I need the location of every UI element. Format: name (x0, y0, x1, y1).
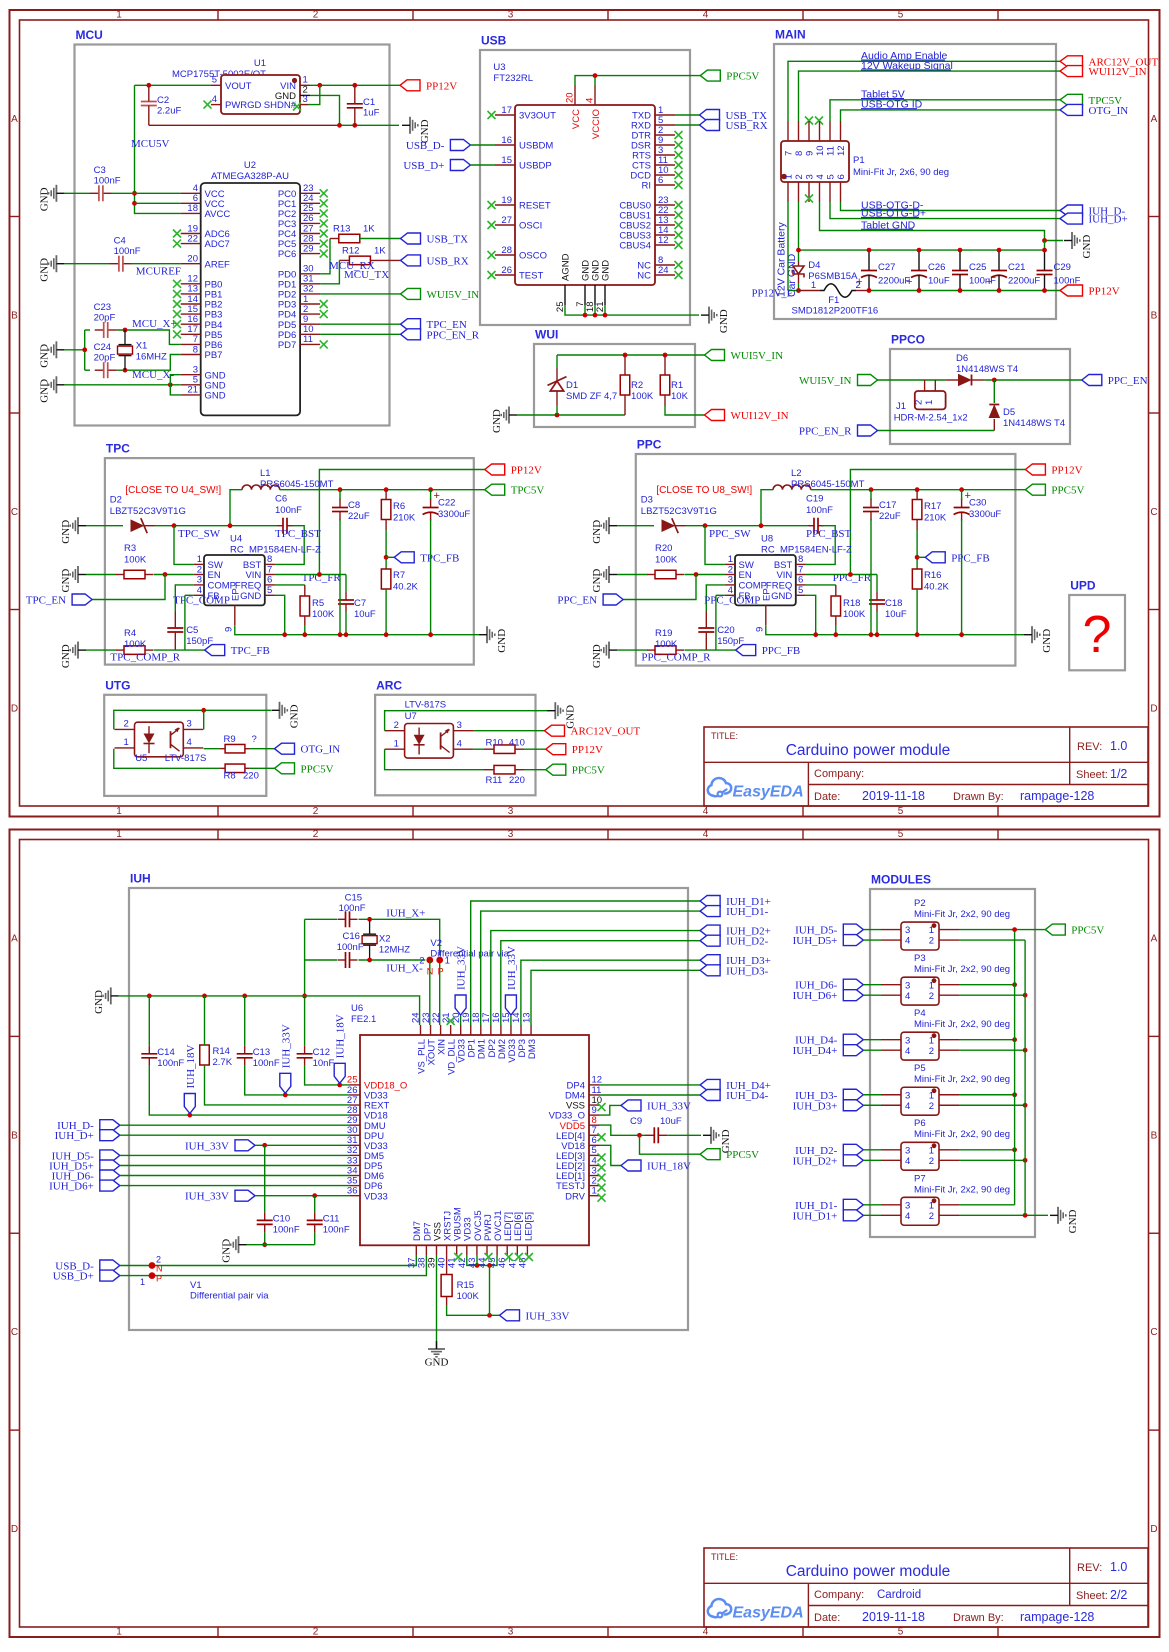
svg-text:R9: R9 (224, 734, 236, 745)
U3 pin 7 number (575, 302, 586, 307)
section title ARC (376, 678, 402, 692)
svg-text:2019-11-18: 2019-11-18 (862, 789, 925, 803)
U6 pin 15 VD33 stub (510, 1025, 512, 1035)
connector P2 body (901, 922, 939, 950)
svg-text:[CLOSE TO U4_SW!]: [CLOSE TO U4_SW!] (125, 485, 221, 496)
C22 polarity + (434, 490, 440, 502)
U3 pin 13 number (658, 215, 669, 226)
U2 pin 22 ADC7 stub (181, 243, 201, 245)
C3 reference (94, 165, 106, 176)
P1 pin 4 stub (819, 182, 821, 202)
svg-text:2: 2 (914, 400, 925, 405)
R8 right stub (245, 767, 250, 769)
P1 pin 3 stub (808, 182, 810, 202)
svg-text:IUH_18V: IUH_18V (185, 1044, 197, 1088)
C30 polarity + (965, 490, 971, 502)
wire USB_D- to DM7 (120, 1255, 417, 1265)
svg-text:PP12V_F: PP12V_F (752, 289, 793, 300)
U6 pin 15 number (501, 1012, 512, 1023)
net flag WUI12V_IN at WUI (705, 410, 789, 423)
svg-text:100K: 100K (312, 609, 335, 620)
U8 pin 7 VIN stub (796, 574, 806, 576)
junction (915, 632, 920, 637)
svg-text:1: 1 (116, 10, 122, 21)
svg-text:150pF: 150pF (186, 636, 213, 647)
junction (867, 288, 872, 293)
svg-text:100nF: 100nF (275, 505, 302, 516)
junction (997, 248, 1002, 253)
svg-text:C9: C9 (630, 1116, 642, 1127)
svg-text:C8: C8 (348, 500, 360, 511)
net flag IUH_D6+ at P3 (793, 990, 864, 1003)
wire IUH_X+ left (305, 918, 337, 920)
U6 pin 42 VD33 stub (466, 1245, 468, 1255)
resistor R1 (660, 375, 670, 395)
inductor L1 (242, 485, 280, 490)
svg-text:PPC5V: PPC5V (301, 763, 334, 775)
net flag PPC_EN (557, 594, 623, 607)
net flag TPC5V (485, 484, 545, 497)
U3 pin 10 number (658, 165, 669, 176)
svg-text:WUI5V_IN: WUI5V_IN (427, 289, 480, 301)
wire Cvin to rail (345, 612, 347, 635)
svg-text:PPC_EN: PPC_EN (1108, 375, 1148, 387)
section title TPC (106, 442, 130, 456)
U6 pin DP738 name (422, 1223, 433, 1241)
U2 pin 10 PD6 stub (300, 333, 320, 335)
wire Audio Amp Enable (788, 61, 1060, 121)
P1 reference (853, 155, 865, 166)
U6 pin DM634 name (364, 1171, 384, 1182)
resistor R2 (620, 375, 630, 395)
U8 pin 3 COMP stub (725, 584, 735, 586)
U6 pin 11 number (592, 1085, 602, 1096)
ground at MODULES (1050, 1207, 1079, 1234)
U2 pin 25 PC2 stub (300, 212, 320, 214)
U1 pin VOUT name (225, 81, 252, 92)
U2 pin 16 PB4 stub (181, 323, 201, 325)
P1 pin 5 stub (829, 182, 831, 202)
net flag OTG_IN at MAIN (1060, 104, 1128, 117)
P6 pin 2 stub (939, 1159, 959, 1161)
U3 pin 6 number (658, 175, 663, 186)
svg-text:NC: NC (637, 271, 651, 282)
U6 pin VSS10 name (566, 1101, 585, 1112)
svg-text:AREF: AREF (205, 259, 231, 270)
U4 pin COMP name (208, 581, 237, 592)
U2 pin 17 number (187, 324, 198, 335)
U2 pin 11 number (303, 334, 313, 345)
U8 pin 8 number (798, 554, 803, 565)
U6 pin 20 number (451, 1012, 462, 1023)
U6 pin VD186 name (561, 1141, 585, 1152)
P7 pin 1 stub (939, 1204, 959, 1206)
svg-text:PPCO: PPCO (891, 333, 925, 347)
wire flag to pin15 (510, 1015, 512, 1025)
C20 value (717, 636, 744, 647)
svg-text:IUH_D4-: IUH_D4- (726, 1090, 768, 1102)
resistor R18 (831, 596, 841, 616)
svg-text:USB_RX: USB_RX (427, 255, 469, 267)
section box WUI (534, 344, 695, 427)
svg-text:A: A (11, 114, 18, 125)
U3 pin 27 number (501, 215, 512, 226)
R6 reference (393, 501, 405, 512)
junction (132, 191, 137, 196)
P6 pin 4 stub (881, 1159, 901, 1161)
wire 5V rail (280, 489, 485, 491)
C5 reference (186, 625, 198, 636)
wire GND pin to rail (275, 595, 285, 634)
U6 pin 48 number (517, 1258, 528, 1269)
diode D1 SMD ZF 4.7 (548, 377, 567, 391)
net flag IUH_18V at C14 (184, 1044, 197, 1113)
net flag TPC_FB mid (394, 552, 459, 565)
V1 pin 1 number (140, 1277, 145, 1287)
svg-text:2: 2 (394, 720, 399, 731)
U2 pin 29 no-connect X (320, 250, 328, 258)
svg-text:1: 1 (394, 739, 399, 750)
svg-text:C10: C10 (273, 1214, 290, 1225)
U3 pin 14 no-connect X (675, 231, 683, 239)
svg-text:C: C (11, 507, 18, 518)
svg-text:Carduino power module: Carduino power module (786, 1563, 951, 1580)
svg-text:Mini-Fit Jr, 2x6, 90 deg: Mini-Fit Jr, 2x6, 90 deg (853, 167, 949, 178)
svg-text:A: A (1151, 114, 1158, 125)
svg-text:Mini-Fit Jr, 2x2, 90 deg: Mini-Fit Jr, 2x2, 90 deg (914, 1074, 1010, 1085)
U6 pin 1 number (592, 1185, 597, 1196)
P5 pin 3 number (905, 1090, 910, 1101)
U3 pin 6 RI stub (655, 184, 675, 186)
U4 pin FB name (208, 591, 220, 602)
svg-text:R15: R15 (457, 1280, 474, 1291)
wire BST (275, 526, 304, 565)
svg-text:PPC_EN: PPC_EN (557, 595, 597, 607)
U3 pin 14 CBUS3 stub (655, 234, 675, 236)
U6 pin 31 VD33 stub (350, 1144, 360, 1146)
U2 pin 11 no-connect X (320, 340, 328, 348)
net label MCUREF (136, 266, 181, 278)
svg-text:7: 7 (798, 564, 803, 575)
P1 pin 1 number (783, 174, 794, 179)
U6 pin XRSTJ40 name (443, 1211, 454, 1241)
U6 pin 10 number (592, 1095, 603, 1106)
junction (384, 632, 389, 637)
U2 pin 27 number (303, 223, 314, 234)
junction (875, 632, 880, 637)
C18 reference (885, 598, 902, 609)
F1 pin 2 stub (856, 290, 869, 292)
U2 pin 23 number (303, 183, 314, 194)
U6 pin 4 LED[2] stub (589, 1164, 600, 1166)
C12 reference (313, 1047, 330, 1058)
net flag IUH_D3+ at P5 (793, 1100, 864, 1113)
C7 value (354, 609, 376, 620)
svg-text:Drawn By:: Drawn By: (953, 1612, 1004, 1624)
wire flag to pin20 (460, 1015, 462, 1025)
U6 pin LED[3]5 name (556, 1151, 585, 1162)
P5 reference (914, 1063, 926, 1074)
ground at C10 (221, 1236, 247, 1263)
wire GND to U2 pin5 (64, 384, 180, 386)
R14 reference (213, 1046, 230, 1057)
svg-text:L2: L2 (791, 468, 802, 479)
resistor R7 (381, 569, 391, 589)
wire C10 bottom (264, 1232, 266, 1244)
junction (867, 248, 872, 253)
svg-text:410: 410 (509, 738, 525, 749)
junction (917, 288, 922, 293)
U6 pin OVCJ145 name (493, 1210, 504, 1241)
svg-text:100K: 100K (843, 609, 866, 620)
svg-text:100nF: 100nF (337, 942, 364, 953)
wire EN to flag (623, 575, 696, 600)
svg-text:10uF: 10uF (660, 1116, 682, 1127)
U6 pin 23 XOUT stub (430, 1025, 432, 1035)
svg-text:PPC_EN_R: PPC_EN_R (799, 426, 852, 438)
U4 pin 7 VIN stub (265, 574, 275, 576)
svg-text:D: D (11, 1524, 18, 1535)
U6 pin 1 no-connect X (598, 1194, 606, 1202)
P3 pin 1 stub (939, 984, 959, 986)
U3 pin 27 OSCI stub (495, 224, 515, 226)
capacitor C25 symbol (952, 271, 968, 275)
capacitor C29 symbol (1037, 271, 1053, 275)
svg-text:1uF: 1uF (363, 108, 380, 119)
svg-text:2/2: 2/2 (1110, 1588, 1127, 1602)
U3 pin DCD name (630, 171, 651, 182)
U2 pin ADC6 name (205, 229, 230, 240)
12V Wakeup Signal underline (861, 69, 951, 71)
U4 pin 1 number (197, 554, 202, 565)
svg-text:3300uF: 3300uF (438, 509, 470, 520)
U6 pin 14 DP3 stub (520, 1025, 522, 1035)
svg-text:MCU: MCU (76, 28, 103, 42)
net label PPC_COMP_R (641, 651, 711, 663)
F1 pin 1 number (811, 280, 816, 291)
wire U1 ground rail red part (149, 124, 340, 126)
U2 pin PC1 name (278, 199, 296, 210)
svg-text:Carduino power module: Carduino power module (786, 742, 951, 759)
U4 pin 5 number (267, 585, 272, 596)
svg-text:Mini-Fit Jr, 2x2, 90 deg: Mini-Fit Jr, 2x2, 90 deg (914, 909, 1010, 920)
svg-text:LBZT52C3V9T1G: LBZT52C3V9T1G (641, 506, 717, 517)
U3 pin 25 AGND stub (564, 285, 566, 305)
wire GND to C3 (64, 192, 90, 194)
net flag PPC5V (1025, 484, 1084, 497)
section box PPC (636, 454, 1016, 666)
svg-text:PPC_COMP: PPC_COMP (704, 595, 760, 607)
net flag IUH_D2- (700, 935, 768, 948)
svg-text:15: 15 (501, 155, 512, 166)
svg-text:3V3OUT: 3V3OUT (519, 111, 556, 122)
U3 pin 4 number (585, 98, 596, 103)
U8 pin 6 number (798, 575, 803, 586)
svg-text:[CLOSE TO U8_SW!]: [CLOSE TO U8_SW!] (656, 485, 752, 496)
wire Cbig top (430, 490, 432, 500)
U6 pin 44 no-connect X (485, 1253, 493, 1261)
U2 pin PC3 name (278, 219, 296, 230)
U6 pin 28 VD18 stub (350, 1114, 360, 1116)
U6 pin 21 VD_DLL stub (450, 1025, 452, 1035)
svg-text:2: 2 (313, 10, 319, 21)
U6 pin 13 number (521, 1012, 532, 1023)
U3 pin 1 TXD stub (655, 114, 675, 116)
U3 pin TXD name (632, 111, 651, 122)
title block Sheet label (1076, 1590, 1108, 1602)
net flag IUH_D2- at P6 (795, 1144, 863, 1157)
U2 pin VCC name (205, 199, 225, 210)
wire IUH_D5- (863, 929, 881, 931)
svg-text:TPC_FB: TPC_FB (231, 645, 270, 657)
U6 pin DP412 name (567, 1081, 585, 1092)
C20 reference (717, 625, 734, 636)
svg-text:USB_D+: USB_D+ (53, 1271, 94, 1283)
svg-text:LED[5]: LED[5] (523, 1212, 534, 1241)
U1 pin 4 number (212, 94, 217, 105)
U6 pin 7 number (592, 1125, 597, 1136)
P6 polarity mark (932, 1143, 937, 1148)
title block frame (704, 727, 1148, 806)
capacitor C15 symbol (338, 911, 358, 927)
wire SW node (155, 525, 278, 527)
U3 pin VCC name (571, 109, 582, 129)
L1 part number (260, 479, 334, 490)
U3 pin 14 number (658, 225, 669, 236)
U6 pin 19 number (461, 1012, 472, 1023)
title block Date label (814, 791, 840, 803)
svg-text:MAIN: MAIN (775, 28, 806, 42)
capacitor C23 symbol (95, 322, 117, 338)
capacitor C19 symbol (808, 518, 824, 534)
U8 pin GND name (771, 591, 792, 602)
svg-text:100K: 100K (655, 639, 678, 650)
svg-text:IUH_D+: IUH_D+ (55, 1130, 94, 1142)
svg-text:D: D (1150, 703, 1157, 714)
IC U3 FT232RL body (515, 105, 655, 285)
U2 pin PD2 name (278, 290, 296, 301)
P2 pin 4 number (905, 936, 910, 947)
wire C14 top (148, 996, 150, 1046)
U2 pin 15 number (187, 304, 198, 315)
U2 pin 13 no-connect X (173, 290, 181, 298)
svg-text:24: 24 (658, 265, 669, 276)
sheet border frame (10, 10, 1160, 817)
U8 pin 2 number (728, 564, 733, 575)
svg-text:C13: C13 (253, 1047, 270, 1058)
U2 pin 9 PD5 stub (300, 323, 320, 325)
V2 pin 1 number (445, 955, 450, 966)
U2 pin 7 PB6 stub (181, 343, 201, 345)
USB-OTG-D+ underline (861, 216, 919, 218)
svg-text:IUH_33V: IUH_33V (647, 1100, 691, 1112)
U7 pin 3 number (457, 720, 462, 731)
svg-text:GND: GND (205, 391, 226, 402)
svg-text:4: 4 (905, 1046, 910, 1057)
title block REV value (1110, 739, 1127, 753)
U8 pin 7 number (798, 564, 803, 575)
svg-text:+: + (856, 276, 862, 288)
U3 pin DSR name (631, 141, 651, 152)
svg-text:L1: L1 (260, 468, 271, 479)
wire USB_D- to USBDM (470, 144, 495, 146)
net flag OTG_IN at UTG (275, 743, 341, 756)
net flag WUI5V_IN (401, 288, 480, 301)
wire GND pin to rail (806, 595, 816, 634)
svg-text:4: 4 (905, 936, 910, 947)
D5 part number (1003, 418, 1065, 429)
U3 pin 4 VCCIO stub (594, 85, 596, 105)
U2 pin 26 number (303, 213, 314, 224)
svg-text:WUI: WUI (535, 328, 558, 342)
wire VDD5 to PPC5V (640, 1135, 701, 1154)
U6 pin 41 no-connect X (454, 1253, 462, 1261)
svg-text:21: 21 (187, 385, 198, 396)
junction (813, 632, 818, 637)
U2 pin GND name (205, 370, 226, 381)
R9 reference (224, 734, 236, 745)
wire to F1 (788, 290, 797, 292)
U2 pin AVCC name (205, 209, 231, 220)
U6 pin 25 number (347, 1075, 358, 1086)
U3 pin DTR name (631, 131, 651, 142)
U4 pin VIN name (245, 570, 261, 581)
X1 reference (136, 341, 148, 352)
svg-text:2: 2 (124, 719, 129, 730)
U6 pin 41 VBUSM stub (456, 1245, 458, 1255)
U6 pin 30 number (347, 1125, 358, 1136)
U6 pin DM313 name (527, 1039, 538, 1059)
U3 pin CBUS4 name (619, 241, 651, 252)
net label IUH_X- (386, 962, 423, 974)
U7 pin 4 number (457, 739, 462, 750)
C25 reference (969, 262, 986, 273)
svg-text:TITLE:: TITLE: (711, 1552, 738, 1562)
U3 pin 8 NC stub (655, 264, 675, 266)
U2 pin 5 number (193, 375, 198, 386)
wire Tablet GND (820, 202, 1064, 241)
svg-text:P6: P6 (914, 1118, 926, 1129)
svg-text:Date:: Date: (814, 791, 840, 803)
junction (992, 378, 997, 383)
P5 pin 1 number (929, 1090, 934, 1101)
svg-text:RESET: RESET (519, 201, 551, 212)
svg-text:IUH_D1-: IUH_D1- (726, 906, 768, 918)
U3 pin 12 number (658, 235, 669, 246)
wire D6 to PPC_EN (985, 379, 1082, 381)
net label TPC_COMP (173, 595, 230, 607)
U2 pin 6 VCC stub (181, 202, 201, 204)
wire IUH_D5+ to U6 (120, 1165, 350, 1167)
svg-text:GND: GND (601, 260, 612, 281)
wire Tablet 5V (830, 100, 1060, 121)
U4 pin BST name (243, 560, 262, 571)
P1 pin 10 number (815, 145, 826, 156)
C9 reference (630, 1116, 642, 1127)
svg-text:5: 5 (798, 585, 803, 596)
svg-text:R13: R13 (333, 224, 350, 235)
svg-text:R2: R2 (631, 380, 643, 391)
svg-text:D5: D5 (1003, 407, 1015, 418)
title block Sheet value (1110, 767, 1127, 781)
net flag TPC5V at MAIN (1060, 94, 1122, 107)
svg-text:1K: 1K (374, 246, 386, 257)
svg-text:PPC_FB: PPC_FB (762, 645, 801, 657)
wire FB down (184, 595, 186, 650)
U6 pin 14 number (511, 1012, 522, 1023)
capacitor C30 symbol (954, 499, 970, 521)
fuse F1 SMD1812P200TF16 (820, 284, 856, 298)
